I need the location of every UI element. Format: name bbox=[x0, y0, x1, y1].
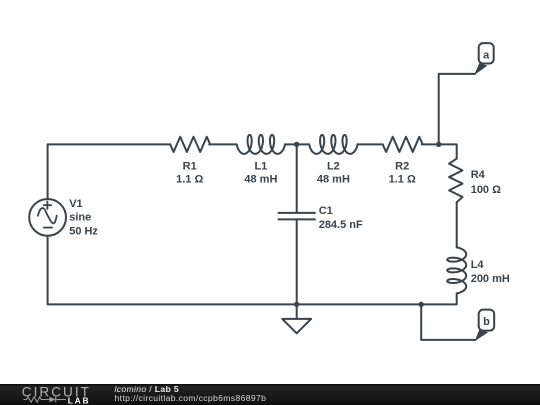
svg-text:200 mH: 200 mH bbox=[471, 273, 510, 285]
ground bbox=[282, 319, 311, 334]
svg-text:V1: V1 bbox=[69, 198, 82, 210]
resistor R1 bbox=[170, 137, 210, 152]
svg-text:R4: R4 bbox=[471, 169, 486, 181]
capacitor C1 bbox=[278, 213, 316, 220]
resistor R4 bbox=[449, 159, 462, 203]
terminal a bbox=[479, 43, 494, 63]
inductor L4 bbox=[447, 247, 466, 293]
CircuitLab logo diode bbox=[50, 397, 56, 403]
svg-text:L1: L1 bbox=[254, 160, 267, 172]
wire L2 to R2 bbox=[358, 143, 383, 145]
svg-text:b: b bbox=[483, 316, 490, 328]
wire terminal-b branch bbox=[421, 304, 475, 340]
voltage source V1 polarity marks + and - bbox=[43, 201, 53, 228]
svg-text:C1: C1 bbox=[319, 205, 333, 217]
wire L1 to L2 bbox=[285, 143, 309, 145]
wire R4 to L4 bbox=[456, 202, 458, 247]
voltage source V1 circle bbox=[29, 199, 66, 236]
node junction dot terminal-a bbox=[436, 142, 441, 147]
inductor L2 bbox=[309, 135, 357, 154]
svg-text:1.1 Ω: 1.1 Ω bbox=[176, 173, 203, 185]
wire R1 to L1 bbox=[209, 143, 237, 145]
wire C1 branch top bbox=[296, 144, 298, 213]
svg-text:284.5 nF: 284.5 nF bbox=[319, 219, 363, 231]
terminal a pointer wedge bbox=[474, 63, 487, 75]
wire top from V1 to R1 bbox=[48, 144, 171, 199]
voltage source V1 sine waveform bbox=[38, 208, 57, 223]
wire L4 to bottom-right corner bbox=[48, 236, 457, 305]
terminal b bbox=[479, 310, 495, 331]
svg-text:1.1 Ω: 1.1 Ω bbox=[389, 173, 416, 185]
svg-text:48 mH: 48 mH bbox=[317, 173, 350, 185]
wire R2 to top-right corner bbox=[422, 144, 457, 158]
svg-text:L2: L2 bbox=[327, 160, 340, 172]
svg-text:R1: R1 bbox=[183, 160, 197, 172]
inductor L1 bbox=[237, 135, 285, 154]
footer bar bbox=[0, 384, 540, 405]
terminal b pointer wedge bbox=[475, 330, 488, 342]
node junction dot C1 top bbox=[294, 142, 299, 147]
svg-text:L4: L4 bbox=[471, 259, 485, 271]
svg-text:LAB: LAB bbox=[68, 396, 90, 405]
svg-text:100 Ω: 100 Ω bbox=[471, 184, 501, 196]
node junction dot ground bbox=[294, 302, 299, 307]
ground stub bbox=[296, 304, 298, 319]
resistor R2 bbox=[383, 137, 423, 152]
svg-text:a: a bbox=[483, 50, 490, 62]
svg-text:sine: sine bbox=[69, 212, 91, 224]
CircuitLab logo waveform bbox=[24, 397, 67, 403]
node junction dot terminal-b bbox=[419, 302, 424, 307]
svg-text:48 mH: 48 mH bbox=[244, 173, 277, 185]
wire C1 branch bottom bbox=[296, 219, 298, 304]
svg-text:R2: R2 bbox=[395, 160, 409, 172]
svg-text:50 Hz: 50 Hz bbox=[69, 225, 98, 237]
wire terminal-a branch bbox=[439, 74, 475, 145]
